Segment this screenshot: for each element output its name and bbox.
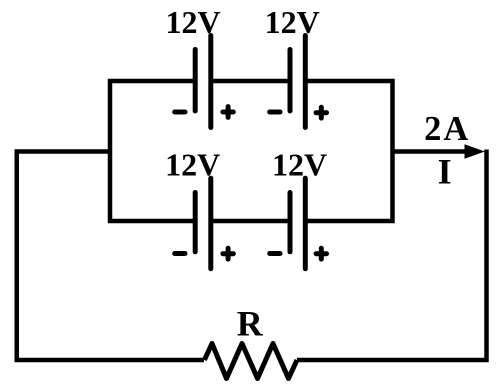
battery B2 minus sign bbox=[270, 110, 280, 115]
svg-text:R: R bbox=[237, 304, 264, 344]
svg-text:12V: 12V bbox=[165, 4, 220, 40]
svg-text:12V: 12V bbox=[165, 147, 220, 183]
arrowhead for current I bbox=[465, 144, 485, 159]
svg-text:12V: 12V bbox=[265, 4, 320, 40]
wire: left branch (middle-left horizontal, far-left vertical, bottom-left horizontal) bbox=[17, 152, 204, 361]
wire: inner box left vertical with top-left and bottom-left stubs bbox=[110, 81, 195, 221]
battery B1 (top-left, 12V) plates bbox=[195, 36, 211, 128]
battery B3 plus sign bbox=[223, 248, 233, 259]
battery B4 (bottom-right, 12V) plates bbox=[290, 178, 305, 269]
battery B1 plus sign bbox=[223, 107, 233, 118]
battery B1 minus sign bbox=[175, 110, 185, 115]
svg-text:A: A bbox=[443, 110, 468, 148]
battery B3 minus sign bbox=[175, 251, 185, 256]
battery B2 (top-right, 12V) plates bbox=[290, 36, 305, 128]
wire: output wire to arrow bbox=[393, 149, 471, 154]
battery B4 minus sign bbox=[270, 251, 280, 256]
wire: inner box right vertical with top-right and bottom-right stubs bbox=[305, 81, 392, 221]
wire: right side (right vertical down from arrow corner, bottom-right horizontal) bbox=[297, 150, 487, 361]
svg-text:2: 2 bbox=[424, 110, 441, 148]
wire: top branch middle segment between batteries bbox=[211, 79, 290, 84]
svg-text:12V: 12V bbox=[272, 147, 327, 183]
battery B2 plus sign bbox=[316, 107, 326, 118]
wire: lower branch middle segment between batteries bbox=[211, 219, 290, 224]
battery B4 plus sign bbox=[316, 248, 326, 259]
battery B3 (bottom-left, 12V) plates bbox=[195, 178, 211, 269]
resistor R zigzag bbox=[204, 344, 297, 379]
svg-text:I: I bbox=[438, 152, 452, 192]
